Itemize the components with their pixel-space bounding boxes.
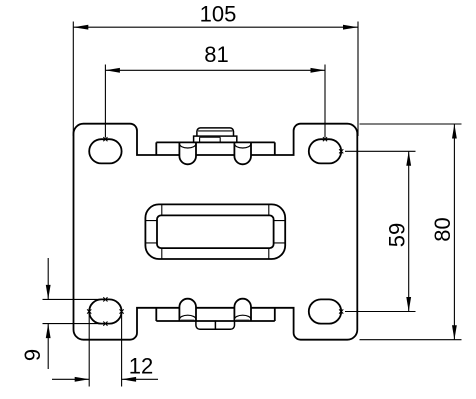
svg-text:12: 12 xyxy=(129,354,153,379)
slot corner connectors xyxy=(145,204,285,259)
dim 81 xyxy=(105,65,325,138)
bottom center block xyxy=(196,320,235,329)
svg-text:81: 81 xyxy=(204,42,228,67)
hole bottom-right xyxy=(309,299,341,323)
hook top-left xyxy=(179,142,196,164)
svg-text:9: 9 xyxy=(20,349,45,361)
dim 59 xyxy=(345,151,416,311)
dim 9 xyxy=(43,258,109,369)
dim 105 xyxy=(73,22,358,137)
center slot outer xyxy=(145,204,285,259)
dim 80 xyxy=(360,124,462,340)
hook bottom-left xyxy=(179,299,196,321)
plate outline xyxy=(74,124,358,340)
bottom tab sides xyxy=(156,308,274,321)
svg-text:105: 105 xyxy=(200,2,237,27)
quadrant marks xyxy=(87,137,343,326)
hole top-right xyxy=(309,139,341,163)
hook top-right xyxy=(234,142,251,164)
top center block tier xyxy=(194,136,237,142)
top center block upper xyxy=(197,128,234,136)
hook bottom-right xyxy=(234,299,251,321)
center slot inner xyxy=(157,215,274,248)
tab bottom edge xyxy=(156,320,274,322)
svg-text:59: 59 xyxy=(385,223,410,247)
tab top edge xyxy=(156,141,274,143)
dim 12 xyxy=(52,314,158,387)
hole top-left xyxy=(89,139,121,163)
top tab sides xyxy=(156,142,274,155)
svg-text:80: 80 xyxy=(430,217,455,241)
hole bottom-left xyxy=(89,299,121,323)
